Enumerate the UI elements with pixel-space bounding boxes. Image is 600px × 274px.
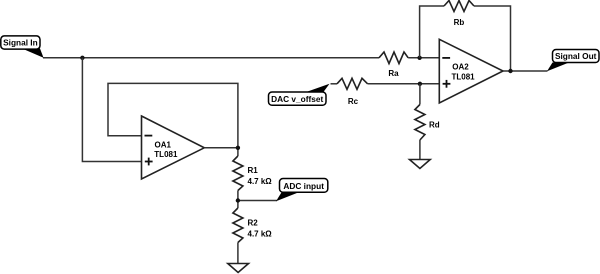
resistor Ra	[379, 52, 408, 78]
node junction at OA2 non-inverting input	[418, 82, 422, 86]
svg-text:4.7 kΩ: 4.7 kΩ	[248, 177, 273, 186]
ground under R2	[228, 264, 249, 273]
wire OA1 feedback loop to inverting input	[108, 83, 238, 147]
svg-text:ADC input: ADC input	[283, 181, 324, 191]
svg-text:OA2: OA2	[452, 63, 469, 72]
wire OA2 feedback right segment	[474, 6, 511, 71]
node junction at OA2 inverting input	[417, 56, 421, 60]
svg-text:TL081: TL081	[452, 73, 476, 82]
svg-text:Signal In: Signal In	[3, 38, 38, 48]
svg-text:DAC v_offset: DAC v_offset	[271, 94, 323, 104]
wire main signal bus	[43, 57, 379, 59]
resistor Rb	[444, 1, 474, 28]
resistor R1 4.7 kOhm	[233, 156, 272, 191]
wire junction to Rd	[419, 84, 421, 105]
node junction at OA2 output	[508, 69, 512, 73]
ground under Rd	[410, 160, 431, 169]
flag ADC input	[276, 179, 328, 202]
resistor Rc	[337, 78, 368, 106]
wire Rd to ground	[419, 140, 421, 160]
node junction at divider tap	[236, 198, 240, 202]
wire to OA1 non-inverting input	[82, 58, 141, 162]
flag DAC v_offset	[269, 84, 330, 106]
node junction at OA1 output	[236, 146, 240, 150]
svg-text:Ra: Ra	[388, 69, 399, 78]
wire OA2 output	[503, 70, 548, 72]
svg-text:Rd: Rd	[429, 121, 440, 130]
wire OA2 feedback left segment	[420, 6, 444, 58]
wire OA1 output	[204, 148, 238, 156]
resistor R2 4.7 kOhm	[233, 208, 272, 243]
wire Ra to OA2 inverting input	[408, 57, 439, 59]
wire Rc to OA2 non-inverting input	[368, 83, 440, 85]
resistor Rd	[415, 105, 440, 141]
svg-text:Signal Out: Signal Out	[555, 51, 597, 61]
svg-text:R2: R2	[248, 219, 259, 228]
wire DAC flag to Rc	[331, 83, 338, 85]
svg-text:R1: R1	[248, 166, 259, 175]
svg-text:OA1: OA1	[155, 141, 172, 150]
op-amp OA2 TL081	[439, 39, 503, 103]
flag Signal In	[1, 36, 44, 58]
wire R1 to R2	[238, 191, 277, 209]
wire R2 to ground	[237, 243, 239, 264]
svg-text:4.7 kΩ: 4.7 kΩ	[248, 230, 273, 239]
flag Signal Out	[547, 50, 599, 72]
node junction at Signal In split	[80, 56, 84, 60]
op-amp OA1 TL081	[142, 116, 205, 179]
svg-text:Rb: Rb	[454, 18, 465, 27]
svg-text:TL081: TL081	[154, 150, 178, 159]
svg-text:Rc: Rc	[348, 97, 359, 106]
